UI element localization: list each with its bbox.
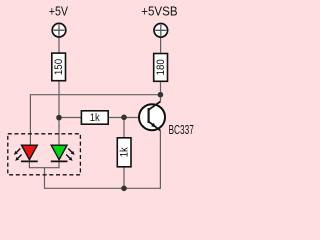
svg-text:150: 150: [53, 59, 65, 75]
svg-text:BC337: BC337: [169, 123, 194, 137]
svg-text:1k: 1k: [90, 112, 101, 124]
svg-text:+5VSB: +5VSB: [141, 4, 177, 19]
svg-text:+5V: +5V: [49, 4, 68, 19]
svg-text:180: 180: [155, 59, 167, 75]
svg-text:1k: 1k: [119, 147, 131, 158]
